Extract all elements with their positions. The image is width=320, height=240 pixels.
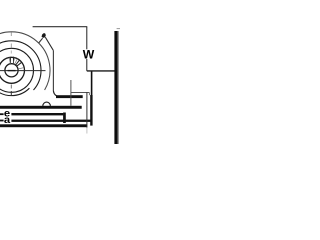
top dimension line bbox=[33, 26, 88, 28]
vertical center line dashes bbox=[10, 33, 12, 37]
zerk leader diagonal bbox=[45, 37, 53, 50]
bearing seat bottom arc bbox=[0, 88, 29, 95]
a dimension dash left bbox=[0, 120, 4, 122]
bearing outer ring circle bbox=[0, 48, 34, 92]
e extension vertical bbox=[63, 113, 66, 124]
base bottom line bbox=[0, 106, 82, 109]
W dimension vertical lower bbox=[86, 59, 88, 71]
cropped top line at right edge bbox=[117, 28, 120, 30]
side view left edge thin vertical bbox=[86, 92, 88, 127]
set screw at 12 o'clock bbox=[10, 57, 13, 64]
zerk stem bbox=[39, 38, 43, 43]
base top edge line bbox=[56, 95, 83, 98]
svg-text:a: a bbox=[4, 114, 10, 125]
center dash (horizontal) bbox=[8, 70, 16, 72]
e dimension dash left bbox=[0, 113, 4, 115]
W dimension vertical upper bbox=[86, 27, 88, 49]
collar radial ticks bbox=[9, 58, 24, 69]
faint horizontal ledge bbox=[71, 92, 90, 94]
housing boss circle bbox=[0, 41, 41, 90]
faint corner down bbox=[88, 93, 90, 96]
grease fitting (zerk) bbox=[42, 33, 46, 38]
bearing inner ring circle bbox=[0, 57, 25, 83]
side view body left edge thick bar bbox=[114, 31, 117, 144]
housing right profile vertical bbox=[52, 50, 54, 90]
set screw at 45 deg bbox=[16, 60, 22, 66]
outer housing circle (front view, clipped below base) bbox=[0, 32, 50, 90]
svg-text:W: W bbox=[83, 47, 95, 61]
bolt hole center line vertical bbox=[70, 80, 72, 106]
bolt hole bump arc bbox=[43, 102, 51, 106]
bore circle bbox=[5, 64, 18, 77]
a dimension line bbox=[11, 120, 91, 122]
center height line bbox=[87, 70, 115, 72]
a extension vertical thick bbox=[91, 71, 93, 95]
horizontal center line bbox=[0, 70, 46, 72]
profile fillet curve bbox=[53, 90, 56, 96]
side view inner line bbox=[118, 31, 119, 144]
e dimension line bbox=[11, 113, 63, 115]
bottom line 2 bbox=[0, 124, 87, 127]
